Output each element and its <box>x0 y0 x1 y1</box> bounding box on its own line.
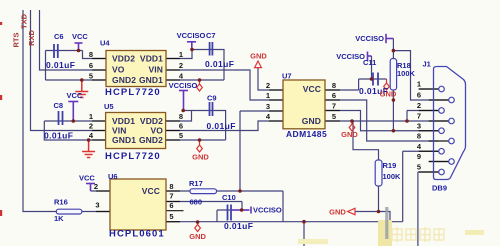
svg-text:VCCISO: VCCISO <box>253 206 282 215</box>
svg-text:VIN: VIN <box>112 126 126 136</box>
svg-text:1: 1 <box>417 80 421 89</box>
svg-text:5: 5 <box>417 163 421 172</box>
svg-text:VO: VO <box>112 65 125 75</box>
svg-text:0.01uF: 0.01uF <box>44 131 73 141</box>
svg-text:VCC: VCC <box>72 32 88 41</box>
svg-text:U5: U5 <box>104 102 114 111</box>
svg-text:GND: GND <box>341 130 358 139</box>
svg-text:VCCISO: VCCISO <box>355 34 384 43</box>
svg-text:6: 6 <box>89 61 93 70</box>
svg-text:C6: C6 <box>54 32 64 41</box>
svg-text:VDD2: VDD2 <box>140 116 163 126</box>
svg-text:VDD1: VDD1 <box>112 116 135 126</box>
svg-text:0.01uF: 0.01uF <box>207 121 236 131</box>
svg-text:GND: GND <box>302 116 321 126</box>
svg-text:RXD: RXD <box>27 30 36 46</box>
svg-text:U6: U6 <box>108 172 118 181</box>
svg-text:VCC: VCC <box>67 91 83 100</box>
svg-text:1K: 1K <box>54 214 64 223</box>
svg-text:C9: C9 <box>207 94 217 103</box>
svg-text:8: 8 <box>332 81 336 90</box>
svg-text:VO: VO <box>151 126 164 136</box>
svg-text:6: 6 <box>417 91 421 100</box>
svg-text:HCPL7720: HCPL7720 <box>105 87 161 98</box>
svg-text:DB9: DB9 <box>432 184 447 193</box>
svg-text:VCC: VCC <box>79 174 95 183</box>
svg-text:100K: 100K <box>383 172 402 181</box>
svg-text:TXD: TXD <box>20 13 29 29</box>
svg-text:VCC: VCC <box>303 84 321 94</box>
svg-text:U7: U7 <box>282 72 292 81</box>
svg-text:5: 5 <box>89 71 93 80</box>
svg-text:VDD2: VDD2 <box>112 54 135 64</box>
svg-text:GND1: GND1 <box>139 75 163 85</box>
svg-text:0.01uF: 0.01uF <box>46 60 75 70</box>
svg-text:R19: R19 <box>383 161 397 170</box>
svg-text:8: 8 <box>89 50 93 59</box>
svg-text:GND: GND <box>192 153 209 162</box>
svg-text:3: 3 <box>266 102 270 111</box>
svg-text:5: 5 <box>332 112 336 121</box>
svg-text:ADM1485: ADM1485 <box>286 129 327 139</box>
svg-text:100K: 100K <box>397 69 416 78</box>
svg-text:0.01uF: 0.01uF <box>224 221 253 231</box>
svg-text:VIN: VIN <box>149 65 163 75</box>
svg-text:6: 6 <box>179 122 183 131</box>
svg-text:HCPL7720: HCPL7720 <box>105 151 161 162</box>
svg-text:6: 6 <box>169 201 173 210</box>
svg-text:U4: U4 <box>100 39 110 48</box>
svg-text:8: 8 <box>179 112 183 121</box>
svg-text:9: 9 <box>417 152 421 161</box>
svg-text:GND: GND <box>189 232 206 241</box>
svg-text:GND: GND <box>380 90 397 99</box>
svg-text:6: 6 <box>332 91 336 100</box>
svg-text:R16: R16 <box>54 198 68 207</box>
svg-text:VCCISO: VCCISO <box>177 31 206 40</box>
svg-text:R17: R17 <box>189 179 203 188</box>
svg-text:8: 8 <box>417 132 421 141</box>
svg-text:VCCISO: VCCISO <box>336 52 365 61</box>
svg-text:5: 5 <box>179 131 183 140</box>
svg-text:5: 5 <box>169 212 173 221</box>
svg-text:1: 1 <box>179 50 183 59</box>
svg-text:GND2: GND2 <box>112 75 136 85</box>
svg-text:3: 3 <box>417 121 421 130</box>
svg-text:2: 2 <box>417 101 421 110</box>
svg-text:0.01uF: 0.01uF <box>205 59 234 69</box>
svg-text:GND: GND <box>329 208 346 217</box>
svg-text:2: 2 <box>89 122 93 131</box>
svg-text:J1: J1 <box>423 60 431 69</box>
svg-text:2: 2 <box>94 182 98 191</box>
svg-text:3: 3 <box>95 201 99 210</box>
svg-text:VDD1: VDD1 <box>140 54 163 64</box>
svg-text:C7: C7 <box>206 31 216 40</box>
svg-text:C11: C11 <box>363 58 376 67</box>
svg-text:RTS: RTS <box>11 33 20 48</box>
svg-text:VCCISO: VCCISO <box>169 81 198 90</box>
svg-text:C8: C8 <box>54 101 64 110</box>
svg-text:2: 2 <box>266 81 270 90</box>
svg-text:7: 7 <box>417 112 421 121</box>
svg-text:VCC: VCC <box>142 186 160 196</box>
svg-text:2: 2 <box>179 61 183 70</box>
svg-text:GND2: GND2 <box>139 135 163 145</box>
svg-text:8: 8 <box>169 182 173 191</box>
svg-text:GND1: GND1 <box>112 135 136 145</box>
svg-text:GND: GND <box>250 52 267 61</box>
svg-text:680: 680 <box>190 198 203 207</box>
svg-text:HCPL0601: HCPL0601 <box>109 229 165 240</box>
svg-text:7: 7 <box>332 102 336 111</box>
svg-text:1: 1 <box>89 112 93 121</box>
svg-text:7: 7 <box>169 192 173 201</box>
svg-text:C10: C10 <box>222 193 236 202</box>
svg-text:1: 1 <box>266 91 270 100</box>
